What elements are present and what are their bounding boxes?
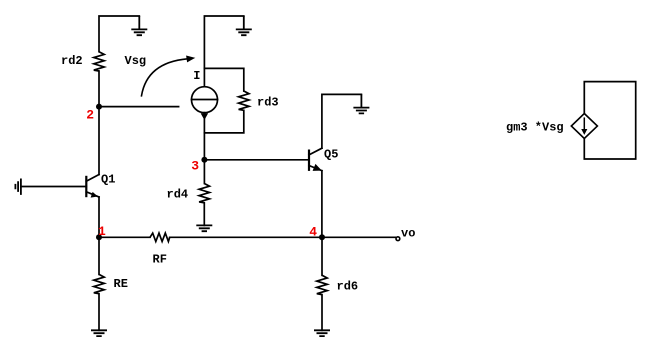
ground G1 top-left — [131, 16, 147, 35]
wire Q1 emitter to node 1 — [98, 197, 100, 237]
ground G3 — [353, 94, 369, 113]
wire node2 stub right — [99, 106, 179, 108]
label gm3 *Vsg — [506, 121, 564, 135]
svg-text:Q5: Q5 — [324, 148, 338, 162]
svg-text:2: 2 — [86, 108, 94, 123]
label rd3 — [257, 96, 279, 110]
resistor rd6 — [317, 275, 327, 294]
ground G2 top-middle — [236, 16, 252, 35]
node 3 — [201, 157, 207, 163]
transistor Q1 — [86, 175, 99, 198]
wire rd3 bottom branch — [204, 110, 243, 133]
resistor rd2 — [94, 52, 104, 71]
ground G5 — [91, 330, 107, 336]
svg-text:4: 4 — [309, 225, 317, 240]
wire rd4 to ground — [203, 203, 205, 226]
node label 1 — [98, 224, 106, 239]
node 2 — [96, 104, 102, 110]
node label 4 — [309, 225, 317, 240]
svg-text:gm3 *Vsg: gm3 *Vsg — [506, 121, 564, 135]
wire ground to Q1 base — [21, 186, 86, 188]
wire current source to node 3 — [203, 113, 205, 160]
svg-text:RE: RE — [114, 277, 128, 291]
wire Q5 collector to ground — [322, 94, 362, 148]
label RF — [153, 253, 167, 267]
wire node4 to vo terminal — [322, 236, 395, 238]
wire rd2 to node 2 — [98, 71, 100, 107]
label rd2 — [61, 54, 83, 68]
node 4 — [319, 234, 325, 240]
transistor Q5 — [309, 148, 322, 171]
resistor RE — [94, 274, 104, 293]
wire Q5 emitter to node 4 — [321, 171, 323, 238]
resistor RF — [150, 233, 170, 241]
label I — [193, 69, 200, 83]
label Vsg — [125, 54, 147, 68]
svg-text:vo: vo — [401, 227, 415, 241]
wire current source top to ground — [204, 16, 243, 87]
current source I — [192, 87, 218, 120]
wire node3 to Q5 base — [204, 159, 309, 161]
node label 3 — [191, 159, 199, 174]
wire rd6 to ground — [321, 295, 323, 331]
terminal vo — [396, 237, 400, 241]
wire node2 column to top ground — [99, 16, 139, 52]
svg-text:RF: RF — [153, 253, 167, 267]
resistor rd4 — [199, 184, 209, 203]
svg-text:rd3: rd3 — [257, 96, 279, 110]
ground G4 — [196, 225, 212, 231]
dependent current source gm3*Vsg — [571, 114, 597, 139]
label Q1 — [101, 173, 115, 187]
wire node2 to Q1 collector — [98, 107, 100, 175]
label Q5 — [324, 148, 338, 162]
svg-text:rd4: rd4 — [167, 187, 189, 201]
svg-text:I: I — [193, 69, 200, 83]
svg-text:Q1: Q1 — [101, 173, 115, 187]
svg-text:3: 3 — [191, 159, 199, 174]
svg-text:Vsg: Vsg — [125, 54, 147, 68]
wire RE to ground — [98, 294, 100, 331]
label rd4 — [167, 187, 189, 201]
node label 2 — [86, 108, 94, 123]
wire node3 to rd4 — [203, 160, 205, 184]
wire node4 to rd6 — [321, 237, 323, 275]
node 1 — [96, 234, 102, 240]
ground G6 — [314, 330, 330, 336]
label RE — [114, 277, 128, 291]
svg-text:rd2: rd2 — [61, 54, 83, 68]
wire RF to node 4 — [170, 236, 322, 238]
label vo — [401, 227, 415, 241]
wire node1 to RE — [98, 237, 100, 274]
wire node1 to RF — [99, 236, 150, 238]
wire dependent source loop — [584, 82, 635, 159]
svg-text:rd6: rd6 — [337, 279, 359, 293]
annotation arrow Vsg — [142, 56, 195, 96]
resistor rd3 — [239, 91, 249, 110]
wire rd3 top branch — [204, 68, 243, 91]
label rd6 — [337, 279, 359, 293]
ground G7 at Q1 base — [15, 179, 21, 195]
